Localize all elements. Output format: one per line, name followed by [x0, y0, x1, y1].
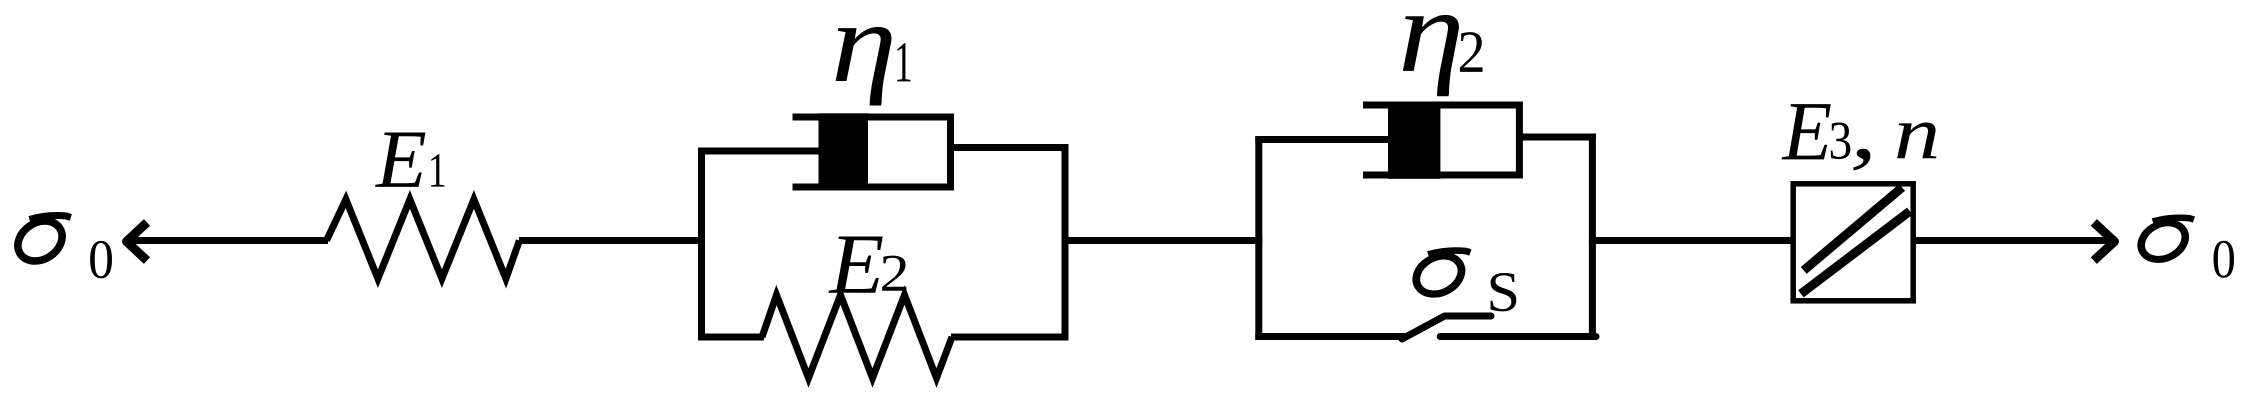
- wire: unit 1 to unit 2: [1062, 237, 1263, 244]
- label E2: [829, 236, 907, 292]
- dashpot D1 piston: [819, 113, 869, 190]
- wire: dashpot 1 to right rail: [951, 144, 1069, 151]
- wire: dashpot 2 to right rail: [1519, 134, 1596, 141]
- dashpot D2 piston: [1388, 102, 1440, 179]
- left load arrow: [126, 222, 328, 260]
- wire: piston rod dashpot 2: [1255, 136, 1390, 143]
- label eta1: [836, 27, 911, 106]
- friction switch lever sigma_s: [1402, 316, 1491, 339]
- Kelvin unit 1 right rail: [1062, 144, 1069, 341]
- spring E1: [327, 199, 520, 278]
- wire: spring E1 to Kelvin unit 1: [519, 237, 705, 244]
- dashpot D2 cylinder: [1363, 102, 1523, 179]
- label sigma_0 left: [10, 213, 112, 278]
- dashpot D1 cylinder: [793, 114, 955, 191]
- plastic element diagonal stripe lower: [1801, 211, 1910, 294]
- wire: switch fixed contact to right rail: [1440, 333, 1596, 340]
- plastic element diagonal stripe upper: [1804, 187, 1902, 270]
- wire: unit 2 bottom left to switch hinge: [1255, 333, 1408, 340]
- spring E2: [762, 295, 952, 378]
- label eta2: [1403, 15, 1483, 96]
- wire: piston rod dashpot 1: [698, 148, 820, 155]
- plastic element box E3: [1793, 184, 1913, 301]
- label E1: [375, 133, 444, 187]
- label sigma_0 right: [2134, 215, 2234, 277]
- Kelvin unit 2 right rail: [1589, 134, 1596, 341]
- wire: unit 1 bottom left: [698, 334, 764, 341]
- wire: unit 1 bottom right: [951, 334, 1069, 341]
- label sigma_s: [1409, 248, 1517, 311]
- right load arrow: [1916, 222, 2115, 260]
- Kelvin unit 1 left rail: [698, 148, 705, 341]
- label E3, n: [1782, 104, 1937, 170]
- Kelvin unit 2 left rail: [1255, 136, 1262, 340]
- wire: unit 2 to plastic box: [1589, 237, 1794, 244]
